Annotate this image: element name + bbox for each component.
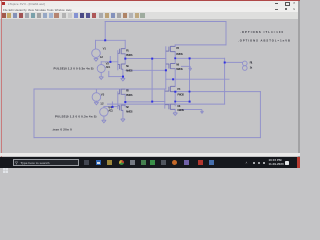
junction dot stage3 gate feed xyxy=(112,106,114,108)
junction dot stage2 tie xyxy=(174,57,176,59)
ground under NMOS1 xyxy=(121,78,125,81)
wire v2 ground lead xyxy=(100,73,102,77)
wire load feed xyxy=(225,61,243,63)
svg-text:PMOS: PMOS xyxy=(177,93,184,97)
wire pmos4 source riser xyxy=(174,79,176,86)
svg-text:PULSE(0 1.2 0 0 0.3n 4n 5): PULSE(0 1.2 0 0 0.3n 4n 5) xyxy=(54,66,94,70)
wire stage1 out down branch xyxy=(151,59,153,102)
svg-text:NMOS: NMOS xyxy=(126,110,133,114)
wire stage3 gate feed xyxy=(104,106,118,108)
wire stage2 source riser xyxy=(174,45,176,47)
svg-text:.OPTIONS ABSTOL=1nVB: .OPTIONS ABSTOL=1nVB xyxy=(238,38,290,42)
wire stage4 gate bar xyxy=(164,89,166,108)
wire nmos1 source down xyxy=(122,69,124,78)
ground under NMOS3 xyxy=(121,119,125,122)
ground nmos2 bulk xyxy=(189,68,192,70)
wire y104 run left xyxy=(108,103,225,105)
svg-text:NMOS: NMOS xyxy=(126,69,133,73)
transistor M2 NMOS stage1 xyxy=(118,64,125,70)
svg-text:1.2: 1.2 xyxy=(100,55,104,59)
wire out2 right drop xyxy=(224,58,226,104)
transistor M3 PMOS stage2 xyxy=(166,46,175,52)
svg-text:1k: 1k xyxy=(250,65,253,69)
svg-text:PMOS: PMOS xyxy=(126,93,133,97)
wire nmos2 bulk xyxy=(181,66,190,68)
load source B1 upper circle xyxy=(243,61,248,66)
svg-text:PMOS: PMOS xyxy=(176,52,183,56)
wire v3 ground lead xyxy=(95,101,97,102)
wire v4 ground lead xyxy=(103,116,105,120)
ground under NMOS4 xyxy=(173,113,177,116)
wire bottom row rail y89 xyxy=(34,88,166,90)
svg-text:V1: V1 xyxy=(103,47,107,51)
wire stage2 drain tie xyxy=(174,52,176,64)
node stub above dot2 xyxy=(111,102,113,107)
wire nmos3 source down xyxy=(122,110,124,119)
svg-text:N3: N3 xyxy=(176,63,179,67)
wire y91.3 run to right xyxy=(175,91,260,93)
wire stage1 gate bar xyxy=(117,51,119,70)
ground nmos4 bulk xyxy=(201,111,204,113)
junction dot x224 y62 xyxy=(224,62,226,64)
junction dot y78.8 xyxy=(172,78,174,80)
wire VDD riser xyxy=(104,22,106,41)
wire nmos1 gnd rail left xyxy=(109,76,123,78)
transistor M7 PMOS stage4 xyxy=(165,86,175,92)
svg-text:P1: P1 xyxy=(126,48,129,52)
ground under V1 xyxy=(94,59,98,62)
wire VDD drop right xyxy=(225,22,227,45)
wire V1 top lead xyxy=(95,40,97,49)
wire stage2 VDD feed xyxy=(175,44,226,46)
canvas background xyxy=(0,20,300,154)
svg-text:NMOS: NMOS xyxy=(176,67,183,71)
ground under V3 xyxy=(94,102,98,105)
wire stage4 output xyxy=(175,101,189,103)
wire nmos1 source to bar xyxy=(125,69,166,71)
ground under V2 xyxy=(99,77,103,80)
wire nmos2 source lead xyxy=(174,69,176,80)
junction dot nmos1 gnd xyxy=(122,76,124,78)
wire nmos4 bulk xyxy=(181,110,202,112)
svg-text:R1: R1 xyxy=(250,61,253,65)
wire stage3 output xyxy=(125,101,152,103)
wire top VDD rail xyxy=(105,21,226,23)
svg-text:AC 1: AC 1 xyxy=(108,108,113,112)
start button xyxy=(3,160,8,165)
junction dot stage3 out xyxy=(124,101,126,103)
junction dot stage2 out xyxy=(189,57,191,59)
wire v4 top lead xyxy=(103,107,105,108)
wire nmos4 source lead xyxy=(174,109,176,112)
wire right drop x260 xyxy=(259,92,261,138)
wire stage3 gate bar xyxy=(117,92,119,109)
svg-text:PMOS: PMOS xyxy=(126,53,133,57)
transistor M1 PMOS stage1 xyxy=(118,48,125,54)
taskbar right red edge xyxy=(297,157,300,168)
wire stage3 drain tie xyxy=(124,94,126,107)
window bottom border red xyxy=(0,156,300,159)
svg-text:V3: V3 xyxy=(101,93,105,97)
svg-text:NMOS: NMOS xyxy=(177,108,184,112)
svg-text:P3: P3 xyxy=(176,46,179,50)
svg-text:.tran 0 20n 0: .tran 0 20n 0 xyxy=(52,127,72,131)
wire left riser x34 xyxy=(33,89,35,138)
transistor M6 NMOS stage3 xyxy=(118,105,125,111)
taskbar app icons xyxy=(0,159,1,161)
wire stage2 output xyxy=(175,57,224,59)
tray caret xyxy=(246,161,248,165)
junction dot stage4 in xyxy=(151,101,153,103)
svg-text:P2: P2 xyxy=(126,89,129,93)
junction dot stage1 gate feed xyxy=(109,61,111,63)
window buttons xyxy=(275,2,278,5)
junction dot stage4 tie xyxy=(174,101,176,103)
window side borders xyxy=(0,1,2,157)
voltage source V4 xyxy=(100,108,108,116)
menu bar xyxy=(0,7,300,12)
transistor M8 NMOS stage4 xyxy=(165,104,175,110)
transistor M4 NMOS stage2 xyxy=(166,63,175,69)
svg-text:N1: N1 xyxy=(126,64,129,68)
svg-text:AC 1: AC 1 xyxy=(106,65,111,69)
schematic canvas xyxy=(0,0,300,168)
mdi child buttons xyxy=(275,8,278,11)
wire stage1 gate feed xyxy=(101,61,118,63)
wire out2 down branch to stage4 out xyxy=(189,58,191,101)
junction dot pmos4 drain xyxy=(174,91,176,93)
wire stage1 drain tie xyxy=(124,40,126,64)
junction dot y91 cross xyxy=(189,91,191,93)
wire stage4 gate feed xyxy=(152,101,165,103)
taskbar xyxy=(0,157,300,168)
tray icons xyxy=(253,162,255,164)
svg-text:PULSE(0 1.2 0 0 0.3n 4n 5): PULSE(0 1.2 0 0 0.3n 4n 5) xyxy=(55,115,97,119)
title text xyxy=(8,2,45,6)
wire stage1 output xyxy=(125,58,166,60)
wire v1 ground lead xyxy=(95,58,97,59)
voltage source V3 xyxy=(92,93,101,102)
window top border xyxy=(0,0,300,1)
wire v3 top lead xyxy=(95,89,97,93)
svg-text:1.2: 1.2 xyxy=(100,102,104,106)
junction dot bar y70 xyxy=(165,69,167,71)
wire y78.8 run xyxy=(166,78,229,80)
voltage source V2 xyxy=(97,65,105,73)
svg-text:.OPTIONS ITL4=100: .OPTIONS ITL4=100 xyxy=(240,30,284,34)
tray shield icon xyxy=(285,161,290,166)
ground under V4 xyxy=(102,120,106,123)
junction dot stage4 out xyxy=(189,101,191,103)
app icon xyxy=(2,2,5,5)
wire V2 top lead xyxy=(100,62,102,65)
clock xyxy=(269,159,284,166)
toolbar xyxy=(0,12,300,21)
node stub above dot xyxy=(109,57,111,62)
wire stage2 gate bar long xyxy=(165,47,167,89)
junction dot out1 branch xyxy=(151,58,153,60)
transistor M5 PMOS stage3 xyxy=(118,89,125,95)
voltage source V1 xyxy=(92,49,101,58)
search box xyxy=(13,159,79,167)
junction dot stage1 drain xyxy=(124,58,126,60)
wire bottom feedback xyxy=(34,137,260,139)
wire stage4 drain tie xyxy=(174,92,176,106)
load source B1 lower circle xyxy=(243,66,248,71)
junction dot VDD riser xyxy=(104,39,106,41)
svg-text:P4: P4 xyxy=(177,87,180,91)
status bar xyxy=(0,153,300,156)
wire nmos1 gnd rail riser xyxy=(108,71,110,76)
title bar xyxy=(0,1,300,7)
wire VDD rail stage1 xyxy=(96,39,126,41)
